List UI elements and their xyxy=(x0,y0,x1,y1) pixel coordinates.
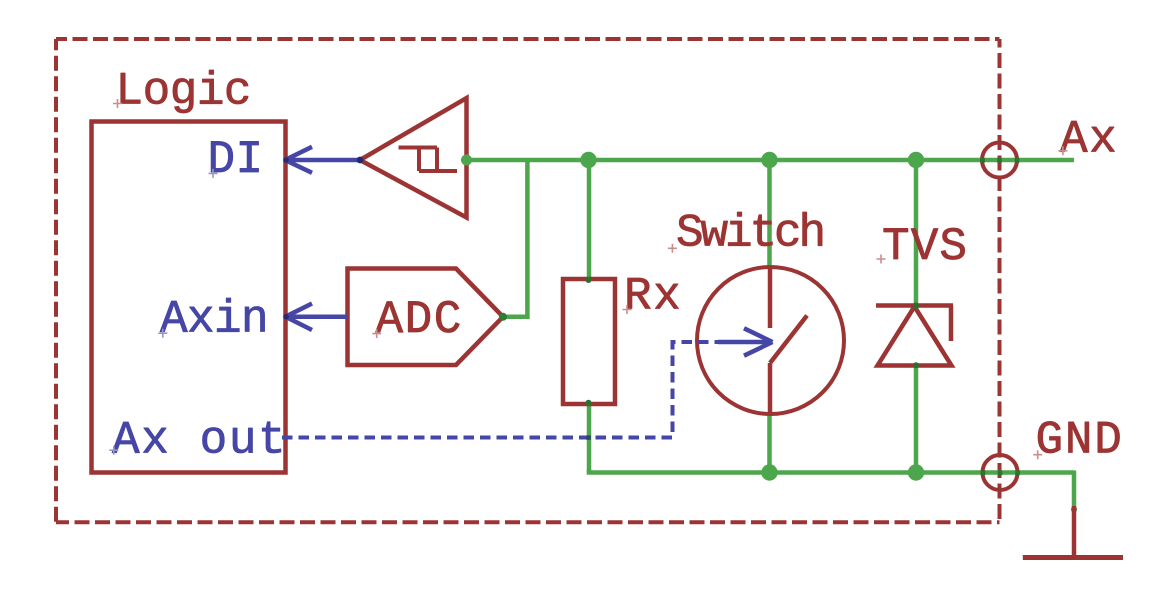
anchor cross GND xyxy=(1033,450,1042,459)
overlap dot at Axin arrow tip xyxy=(283,314,289,320)
overlap dot at DI arrow tip xyxy=(283,157,289,163)
anchor cross ADC xyxy=(372,329,381,338)
pin Ax circle xyxy=(982,143,1017,178)
blend dot Rx bottom xyxy=(586,400,592,406)
resistor Rx xyxy=(563,279,615,404)
overlap dot at buffer tip xyxy=(357,157,364,164)
blend dot TVS cathode xyxy=(913,303,919,309)
wire: switch bottom stub xyxy=(767,413,772,473)
anchor cross DI xyxy=(209,169,218,178)
wire: buffer input feed down to ADC xyxy=(503,160,527,317)
TVS diode cathode bar xyxy=(876,303,953,308)
svg-text:ADC: ADC xyxy=(376,294,463,346)
wire: GND drop xyxy=(1072,471,1077,511)
anchor cross Switch xyxy=(668,244,677,253)
svg-text:Switch: Switch xyxy=(676,208,823,260)
junction dot top TVS xyxy=(908,152,924,168)
blend patch control line over Rx stub xyxy=(586,435,591,439)
wire end cap at gnd stem xyxy=(1071,507,1077,513)
blend patch GND pin ring left xyxy=(981,470,986,475)
switch blade xyxy=(770,316,807,364)
wire: TVS bottom stub xyxy=(914,365,919,473)
svg-text:Ax: Ax xyxy=(1060,114,1118,166)
arrow to Axin xyxy=(286,304,348,331)
wire: GND net horizontal xyxy=(587,470,1074,475)
enclosure dashed border right xyxy=(998,39,1002,522)
enclosure dashed border left xyxy=(54,39,58,522)
wire: TVS top stub xyxy=(914,160,919,306)
anchor cross Ax xyxy=(1058,146,1067,155)
enclosure dashed border top xyxy=(56,37,1000,41)
anchor cross TVS xyxy=(877,255,886,264)
control arrow head xyxy=(718,328,773,355)
adc block xyxy=(348,269,504,366)
anchor cross Ax out xyxy=(109,446,118,455)
logic block U1 xyxy=(92,122,286,473)
blend dot Rx top xyxy=(586,277,592,283)
junction dot buffer output xyxy=(461,155,472,166)
gnd symbol bar xyxy=(1023,555,1123,560)
switch bottom contact xyxy=(768,363,773,414)
junction dot bottom TVS xyxy=(908,464,924,480)
arrow to DI xyxy=(285,147,360,173)
anchor cross Logic xyxy=(113,99,122,108)
control dashed line from Ax out xyxy=(282,342,718,438)
svg-text:Rx: Rx xyxy=(624,271,682,323)
svg-text:Logic: Logic xyxy=(116,66,252,118)
blend patch GND pin dash xyxy=(998,470,1003,475)
TVS diode triangle xyxy=(878,307,952,366)
wire: Rx top stub xyxy=(587,160,592,280)
blend patch Ax pin dash xyxy=(997,158,1002,163)
svg-text:Axin: Axin xyxy=(160,294,268,346)
wire: Ax net horizontal xyxy=(467,158,1075,163)
blend patch Ax pin ring left xyxy=(980,158,985,163)
wire: Rx bottom stub xyxy=(587,403,592,473)
TVS cathode bend xyxy=(949,306,954,342)
enclosure dashed border bottom xyxy=(56,520,1000,524)
svg-text:TVS: TVS xyxy=(882,221,968,273)
junction dot top Rx xyxy=(580,152,596,168)
gnd symbol stem xyxy=(1072,506,1077,558)
svg-text:GND: GND xyxy=(1036,415,1124,467)
anchor cross Axin xyxy=(158,329,167,338)
blend patch Ax pin ring right xyxy=(1015,158,1020,163)
switch SW1 circle xyxy=(697,267,844,414)
junction dot top switch xyxy=(761,152,777,168)
pin GND circle xyxy=(983,455,1018,490)
schmitt hysteresis symbol xyxy=(399,148,458,172)
junction dot ADC point xyxy=(499,313,507,321)
junction dot bottom switch xyxy=(761,464,777,480)
svg-text:DI: DI xyxy=(208,134,264,186)
switch top contact xyxy=(768,268,773,329)
blend patch GND pin ring right xyxy=(1015,470,1020,475)
blend dot TVS anode xyxy=(913,362,919,368)
wire: switch top stub xyxy=(767,160,772,268)
anchor cross Rx xyxy=(623,305,632,314)
svg-text:Ax out: Ax out xyxy=(112,415,287,467)
schmitt buffer triangle xyxy=(360,98,467,218)
